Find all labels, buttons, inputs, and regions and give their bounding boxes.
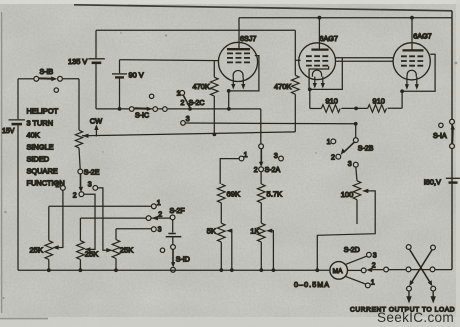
wire 100 wiper to rail xyxy=(317,189,375,271)
svg-text:S-IC: S-IC xyxy=(135,113,149,120)
node 910 junction xyxy=(354,107,358,111)
svg-text:100: 100 xyxy=(341,190,354,199)
wire S2E3 to pot3 wiper xyxy=(98,188,113,253)
svg-text:1K: 1K xyxy=(250,227,259,236)
svg-text:2: 2 xyxy=(372,262,376,269)
svg-text:2: 2 xyxy=(181,100,185,107)
node 90V on bus xyxy=(118,107,122,111)
battery bias cell xyxy=(166,234,182,245)
switch S-2C xyxy=(180,91,192,126)
wire 135V battery drop xyxy=(95,30,97,58)
svg-text:S-ID: S-ID xyxy=(176,256,190,263)
potentiometer 25K second xyxy=(77,218,85,270)
svg-text:S-2A: S-2A xyxy=(265,167,281,174)
svg-text:1: 1 xyxy=(56,182,60,189)
wire grid drop from 135 rail xyxy=(294,30,296,75)
potentiometer 100 xyxy=(353,167,361,224)
svg-text:1: 1 xyxy=(244,152,248,159)
wire plate lead V2 xyxy=(318,18,320,50)
wire meter to reversing switch xyxy=(373,269,453,271)
svg-text:S-IB: S-IB xyxy=(40,69,54,76)
svg-text:3: 3 xyxy=(186,116,190,123)
arrow output right xyxy=(431,291,436,304)
resistor 470K second xyxy=(291,75,299,132)
svg-text:I80,V: I80,V xyxy=(424,178,441,187)
svg-text:S-2B: S-2B xyxy=(358,145,374,152)
potentiometer 25K first xyxy=(45,206,53,270)
svg-text:MA: MA xyxy=(333,268,343,275)
svg-text:40K: 40K xyxy=(27,130,40,139)
helipot wiper arrow xyxy=(82,134,89,138)
wire grid stub V2 xyxy=(295,59,300,61)
svg-text:1: 1 xyxy=(371,280,375,287)
svg-text:135 V: 135 V xyxy=(68,57,87,66)
switch S-2A xyxy=(239,144,283,172)
resistor 470K first xyxy=(211,61,219,135)
svg-text:SQUARE: SQUARE xyxy=(27,166,58,175)
resistor 69K xyxy=(218,184,226,223)
wire 3 to S-2F xyxy=(116,228,151,230)
node rail 5K wiper xyxy=(230,268,234,272)
wire S2E1 to pot1 wiper xyxy=(52,190,63,249)
svg-text:25K: 25K xyxy=(85,250,99,259)
svg-text:S-IA: S-IA xyxy=(433,133,447,140)
switch S-1C xyxy=(129,94,167,111)
node rail pot1 xyxy=(47,268,51,272)
node S2F contact 2 xyxy=(146,216,151,221)
switch S-2F blade xyxy=(152,216,159,221)
svg-text:1: 1 xyxy=(327,139,331,146)
tube V3 6AG7 xyxy=(393,43,435,109)
node S2B tap xyxy=(354,122,358,126)
svg-text:S-2D: S-2D xyxy=(344,247,360,254)
switch S-3 reversing xyxy=(384,245,436,291)
potentiometer 25K third xyxy=(112,229,120,270)
svg-text:3: 3 xyxy=(88,181,92,188)
border bottom smudge xyxy=(0,318,48,320)
meter MA xyxy=(330,262,348,280)
wire S2F pole down xyxy=(172,220,174,233)
wire 1 to S-2F xyxy=(49,205,152,207)
svg-text:69K: 69K xyxy=(227,189,241,198)
svg-text:15V: 15V xyxy=(2,128,15,135)
wire S2E2 to pot2 wiper xyxy=(84,194,95,251)
wire S-2A feed drop xyxy=(260,109,262,144)
svg-text:SINGLE: SINGLE xyxy=(27,142,54,151)
tube V2 6AG7 xyxy=(299,43,343,109)
svg-text:1: 1 xyxy=(157,200,161,207)
wire bias bus left xyxy=(96,108,261,110)
node S2F pole xyxy=(170,215,175,220)
svg-text:25K: 25K xyxy=(120,246,134,255)
svg-text:2: 2 xyxy=(73,193,77,200)
node plate V3 xyxy=(410,16,414,20)
node rail 1K wiper xyxy=(272,268,276,272)
wire 2 to S-2F pole xyxy=(80,217,170,219)
battery B4 15V xyxy=(9,120,25,270)
svg-text:3 TURN: 3 TURN xyxy=(27,118,54,127)
label HELIPOT block xyxy=(27,106,65,187)
node rail pot2 xyxy=(79,268,83,272)
switch S-1B xyxy=(18,76,79,92)
border left edge xyxy=(1,12,3,313)
svg-text:SIDED: SIDED xyxy=(27,154,50,163)
switch S-2E xyxy=(61,169,98,197)
svg-text:2: 2 xyxy=(254,167,258,174)
svg-text:910: 910 xyxy=(326,97,338,106)
svg-text:90 V: 90 V xyxy=(129,71,144,80)
wire 1K wiper xyxy=(266,229,273,271)
node plate V2 xyxy=(318,16,322,20)
svg-text:5.7K: 5.7K xyxy=(267,189,283,198)
svg-text:0–0.5MA: 0–0.5MA xyxy=(294,280,330,289)
svg-text:S-2C: S-2C xyxy=(189,100,205,107)
switch S-2D xyxy=(345,252,373,287)
switch S-1A xyxy=(439,119,455,148)
resistor 5.7K xyxy=(257,184,265,223)
potentiometer helipot 40K xyxy=(75,79,82,169)
svg-text:2: 2 xyxy=(331,155,335,162)
node rail pot3 xyxy=(114,268,118,272)
node rail 1K bottom xyxy=(259,268,263,272)
wire V2 to V3 coupling lower xyxy=(335,60,393,62)
svg-text:HELIPOT: HELIPOT xyxy=(27,106,59,115)
wire cathode bus V2-V3 xyxy=(310,107,402,109)
node rail 69K xyxy=(219,268,223,272)
svg-text:3: 3 xyxy=(158,227,162,234)
resistor 910 second xyxy=(368,105,387,113)
resistor 910 first xyxy=(321,105,340,113)
wire V2 to V3 coupling upper xyxy=(335,57,393,59)
wire top rail 180V xyxy=(239,17,452,19)
svg-text:1: 1 xyxy=(177,91,181,98)
svg-text:3: 3 xyxy=(348,161,352,168)
wire S2A1 to 69K xyxy=(220,159,239,184)
wire helipot wiper to grid xyxy=(82,132,295,136)
svg-text:3: 3 xyxy=(274,153,278,160)
wire S2C3 to S2B xyxy=(185,122,355,125)
wire right vertical B+ xyxy=(451,11,453,270)
switch S-1D xyxy=(160,245,175,273)
svg-text:5K: 5K xyxy=(207,227,216,236)
potentiometer 5K xyxy=(218,223,226,270)
node rail meter tap xyxy=(315,268,319,272)
battery B3 180V xyxy=(446,178,460,182)
node S2F contact 3 xyxy=(151,227,156,232)
svg-text:6AG7: 6AG7 xyxy=(320,34,338,43)
svg-text:SeekIC.com: SeekIC.com xyxy=(377,310,454,325)
tube V1 6SJ7 xyxy=(218,42,259,111)
wire bottom rail xyxy=(18,269,330,271)
battery B2 90V xyxy=(112,74,127,109)
battery B1 135V xyxy=(88,59,105,109)
svg-text:3: 3 xyxy=(373,253,377,260)
potentiometer 1K xyxy=(257,223,265,270)
wire 90V feed xyxy=(120,59,219,62)
node S2F contact 1 xyxy=(151,204,156,209)
switch S-2B xyxy=(331,124,358,167)
svg-text:S-2F: S-2F xyxy=(170,208,185,215)
wire 5K wiper xyxy=(226,229,232,271)
svg-text:S-2E: S-2E xyxy=(84,170,100,177)
node 470K bottom xyxy=(213,133,217,137)
border top xyxy=(74,5,452,11)
svg-text:CW: CW xyxy=(90,116,102,125)
wire 90V battery drop xyxy=(119,60,121,73)
svg-text:25K: 25K xyxy=(30,246,44,255)
arrow output left xyxy=(406,291,411,304)
svg-text:470K: 470K xyxy=(193,82,210,91)
wire 15V left drop xyxy=(17,79,19,120)
svg-text:470K: 470K xyxy=(274,82,291,91)
wire S2A2 to 5.7K xyxy=(260,172,262,184)
arrow CW up xyxy=(94,124,98,136)
svg-text:6AG7: 6AG7 xyxy=(413,32,431,41)
wire plate lead V3 xyxy=(411,18,413,50)
svg-text:910: 910 xyxy=(373,97,385,106)
svg-text:2: 2 xyxy=(158,211,162,218)
wire top rail 135V xyxy=(96,29,295,31)
svg-text:6SJ7: 6SJ7 xyxy=(240,34,256,43)
wire plate lead V1 xyxy=(238,18,240,49)
